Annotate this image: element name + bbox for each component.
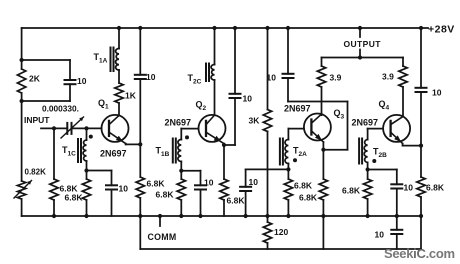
wire input lead — [41, 127, 67, 129]
wire Q4 emitter — [403, 144, 424, 148]
label T1B — [156, 146, 170, 159]
resistor R7 6.8K — [177, 171, 185, 218]
label 10 C10 — [375, 230, 385, 240]
resistor R13 6.8K — [319, 150, 327, 249]
label T2C — [188, 73, 202, 86]
svg-text:10: 10 — [375, 230, 385, 240]
svg-text:120: 120 — [274, 227, 288, 237]
label COMM — [148, 232, 177, 242]
wire left rail mid segment — [21, 93, 23, 181]
transistor Q1 2N697 — [102, 115, 129, 144]
resistor R14 3.9 — [399, 66, 407, 87]
node T1C bottom junction — [84, 161, 88, 173]
resistor R8 6.8K — [220, 145, 228, 216]
svg-text:10: 10 — [404, 183, 414, 193]
wire T2C to Q2 collector — [214, 80, 216, 115]
svg-text:6.8K: 6.8K — [299, 193, 318, 203]
label 6.8K R8 — [227, 196, 246, 206]
resistor R11 6.8K — [284, 169, 292, 218]
label 10 C5 — [204, 178, 214, 188]
wire RC block bottom — [20, 99, 71, 103]
label 6.8K R15 — [342, 186, 361, 196]
svg-text:3.9: 3.9 — [330, 73, 342, 83]
transformer T2B — [359, 139, 376, 164]
label 120 — [274, 227, 288, 237]
label Q3 — [334, 108, 345, 121]
label 6.8K R4 — [65, 193, 84, 203]
label 2N697 Q4 — [352, 118, 379, 128]
label 0.82K — [25, 168, 47, 177]
capacitor C11 10 — [416, 88, 427, 146]
node T2A bottom junction — [286, 164, 290, 172]
resistor R6 6.8K — [136, 144, 144, 218]
label 10 C11 — [432, 88, 442, 98]
label 10 C3 — [119, 184, 129, 194]
resistor R16 6.8K — [417, 146, 425, 218]
svg-text:6.8K: 6.8K — [156, 190, 175, 200]
svg-text:10: 10 — [119, 184, 129, 194]
wire R5 to Q1 collector — [118, 103, 120, 115]
resistor R1 2K — [17, 69, 25, 93]
wire Q1 emitter — [126, 142, 143, 146]
capacitor C8 10 — [283, 26, 294, 102]
svg-text:6.8K: 6.8K — [426, 183, 445, 193]
capacitor C5 10 — [195, 171, 206, 218]
label 10 C1 — [77, 76, 87, 86]
wire T1B junction to C5 — [181, 170, 200, 172]
svg-text:+28V: +28V — [428, 23, 455, 35]
transformer T2C — [206, 64, 215, 82]
svg-text:10: 10 — [204, 178, 214, 188]
wire 3K to bottom rail — [265, 132, 269, 219]
resistor R5 1K — [115, 83, 123, 103]
label 10 C4 — [146, 72, 156, 82]
wire input to Q1 base — [52, 126, 102, 130]
wire T1C junction to C3 — [87, 170, 112, 172]
resistor R15 6.8K — [363, 170, 371, 219]
svg-text:6.8K: 6.8K — [147, 179, 166, 189]
label 2N697 Q1 — [100, 149, 127, 159]
transistor Q4 2N697 — [383, 115, 410, 144]
resistor R2 0.82K variable — [14, 181, 32, 200]
label 6.8K R3 — [60, 184, 79, 194]
svg-text:10: 10 — [146, 72, 156, 82]
wire right rail top — [419, 26, 423, 88]
wire Q2 emitter — [222, 143, 235, 147]
transformer T2A — [280, 139, 297, 165]
transistor Q2 2N697 — [199, 115, 226, 144]
svg-text:2N697: 2N697 — [100, 149, 127, 159]
label Q4 — [379, 99, 390, 112]
svg-text:10: 10 — [243, 94, 253, 104]
svg-text:2K: 2K — [29, 74, 41, 84]
transistor Q3 2N697 — [304, 114, 331, 143]
label 6.8K R13 — [299, 193, 318, 203]
capacitor C10 10 — [391, 216, 402, 249]
svg-text:OUTPUT: OUTPUT — [344, 39, 382, 49]
wire +28V top supply rail — [22, 27, 428, 29]
label T2B — [373, 147, 387, 160]
svg-text:2N697: 2N697 — [352, 118, 379, 128]
label INPUT — [24, 115, 50, 125]
capacitor C6 10 — [230, 26, 241, 145]
label OUTPUT — [344, 39, 382, 49]
wire C8 to Q3 emitter box — [288, 102, 348, 152]
wire lower common rail — [140, 216, 421, 249]
label Q1 — [98, 98, 109, 111]
wire collector load bus — [322, 57, 404, 59]
wire OUTPUT drop — [358, 26, 362, 60]
capacitor C2 0.000330 variable — [61, 117, 84, 138]
label 3K — [249, 116, 261, 126]
svg-text:6.8K: 6.8K — [294, 181, 313, 191]
label T2A — [293, 146, 307, 159]
transformer T1B — [173, 135, 189, 162]
svg-text:6.8K: 6.8K — [227, 196, 246, 206]
wire left rail upper segment — [21, 28, 23, 69]
label 6.8K R11 — [294, 181, 313, 191]
watermark SeekiC.com — [384, 246, 455, 261]
wire 3.9 left top — [321, 58, 323, 67]
label 2K — [29, 74, 41, 84]
label +28V — [428, 23, 455, 35]
label 10 C7 — [249, 177, 259, 187]
label T1A — [94, 52, 108, 65]
node T1B bottom junction — [179, 162, 183, 173]
svg-text:10: 10 — [267, 73, 277, 83]
capacitor C1 10 — [65, 60, 76, 101]
svg-text:2N697: 2N697 — [284, 104, 311, 114]
svg-text:COMM: COMM — [148, 232, 177, 242]
resistor R10 120 — [263, 216, 271, 249]
transformer T1C — [78, 126, 93, 162]
wire 3K column top — [265, 26, 269, 110]
transformer T1A — [111, 48, 120, 72]
label 2N697 Q2 — [165, 118, 192, 128]
capacitor C7 10 — [240, 169, 251, 218]
resistor R4 6.8K — [82, 171, 90, 219]
wire T1A top — [117, 26, 121, 49]
label 1K — [125, 91, 137, 101]
label Q2 — [196, 100, 207, 113]
svg-text:10: 10 — [432, 88, 442, 98]
capacitor C3 10 — [106, 171, 117, 217]
wire T1A to R5 — [118, 70, 120, 83]
wire 3.9 right top — [402, 58, 404, 67]
resistor R3 6.8K — [50, 128, 58, 218]
svg-text:SeekiC.com: SeekiC.com — [384, 246, 455, 261]
wire R12 to Q3 collector — [321, 87, 323, 115]
svg-text:INPUT: INPUT — [24, 115, 50, 125]
label 6.8K R7 — [156, 190, 175, 200]
svg-text:10: 10 — [249, 177, 259, 187]
capacitor C9 10 — [391, 170, 402, 219]
label 3.9 R12 — [330, 73, 342, 83]
label COMM terminal stub — [158, 214, 162, 226]
svg-text:0.82K: 0.82K — [25, 168, 47, 177]
wire C7 to T2A junction — [246, 168, 289, 170]
label T1C — [62, 145, 76, 158]
wire Q3 emitter — [322, 142, 324, 150]
label 6.8K R6 — [147, 179, 166, 189]
svg-text:6.8K: 6.8K — [65, 193, 84, 203]
wire R14 to Q4 collector — [402, 87, 404, 116]
wire COMM bottom rail — [22, 215, 421, 217]
svg-text:3K: 3K — [249, 116, 261, 126]
wire Q4 base — [368, 129, 384, 140]
svg-text:10: 10 — [77, 76, 87, 86]
svg-text:2N697: 2N697 — [165, 118, 192, 128]
wire RC block top — [20, 58, 71, 62]
wire right rail to lower rail — [420, 216, 422, 249]
label 2N697 Q3 — [284, 104, 311, 114]
label 10 C9 — [404, 183, 414, 193]
label 6.8K R16 — [426, 183, 445, 193]
resistor R12 3.9 — [317, 66, 325, 87]
capacitor C4 10 — [135, 26, 146, 144]
svg-text:6.8K: 6.8K — [342, 186, 361, 196]
wire Q3 base — [288, 129, 304, 140]
wire Q2 base — [181, 129, 198, 140]
label 10 C8 — [267, 73, 277, 83]
svg-text:1K: 1K — [125, 91, 137, 101]
label 10 C6 — [243, 94, 253, 104]
wire T2C top — [212, 26, 216, 65]
label 0.000330. — [42, 104, 79, 114]
label 3.9 R14 — [382, 72, 394, 82]
wire left rail lower segment — [21, 199, 23, 216]
wire T2B junction to C9 — [368, 169, 397, 171]
svg-text:3.9: 3.9 — [382, 72, 394, 82]
resistor R9 3K — [263, 110, 271, 132]
svg-text:0.000330.: 0.000330. — [42, 104, 79, 114]
node T2B bottom junction — [366, 163, 370, 172]
